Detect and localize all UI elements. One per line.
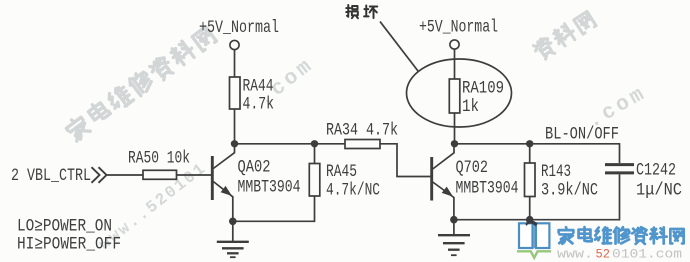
transistor Q702 emitter — [433, 182, 454, 220]
wire: RA34 right to Q702 base — [380, 144, 430, 177]
wire: node A to RA34 (horizontal bus y=144) — [235, 143, 346, 145]
capacitor C1242 bottom plate — [605, 171, 634, 174]
wire: RA45 top from bus — [314, 144, 316, 164]
node: Q702 emitter junction dot — [450, 216, 458, 224]
transistor Q702 base bar — [430, 157, 433, 201]
wire: +5V terminal to RA44 top — [234, 50, 236, 77]
svg-text:HI≥POWER_OFF: HI≥POWER_OFF — [17, 236, 121, 255]
wire: Q702 emitter node to ground — [453, 220, 455, 235]
svg-text:QA02: QA02 — [238, 159, 271, 178]
wire: R143 bottom to bottom bus — [529, 197, 531, 220]
power terminal +5V_Normal (right) — [450, 40, 459, 49]
watermark CJK right-top — [532, 12, 596, 62]
wire: RA50 to QA02 base — [177, 174, 212, 176]
svg-text:C1242: C1242 — [636, 162, 676, 181]
logo book icon spine line — [533, 224, 535, 248]
resistor R143 body — [525, 163, 536, 197]
wire: BL-ON/OFF bus to capacitor corner — [455, 144, 620, 163]
annotation text "damaged" (sun-huai) — [346, 5, 377, 18]
ground symbol (right) — [438, 235, 470, 255]
svg-text:+5V_Normal: +5V_Normal — [199, 19, 279, 38]
svg-text:RA50 10k: RA50 10k — [128, 150, 190, 169]
svg-text:1k: 1k — [462, 98, 479, 117]
logo book icon dark bookmark — [526, 221, 538, 227]
svg-text:4.7k: 4.7k — [243, 96, 275, 115]
wire: RA45 bottom down and left to QA02 emitter — [233, 196, 315, 221]
transistor QA02 base bar — [211, 156, 214, 200]
logo CJK text jia-dian-wei-xiu-zi-liao-wang — [559, 227, 684, 244]
svg-text:0101.com: 0101.com — [612, 247, 682, 261]
svg-text:3.9k/NC: 3.9k/NC — [541, 182, 598, 201]
resistor RA45 body — [309, 164, 320, 197]
transistor QA02 collector — [213, 141, 234, 169]
svg-text:BL-ON/OFF: BL-ON/OFF — [545, 126, 619, 145]
resistor RA109 body — [449, 79, 460, 113]
node: QA02 emitter junction dot — [229, 218, 237, 226]
node: R143 bottom junction dot — [526, 216, 534, 224]
leader line from damage label to ellipse — [380, 22, 418, 72]
node: R143 top junction dot — [526, 140, 533, 147]
resistor RA50 body — [143, 170, 177, 179]
ground symbol (left) — [217, 242, 249, 257]
highlight ellipse around RA109 — [407, 59, 512, 127]
transistor QA02 emitter arrow — [221, 186, 232, 196]
svg-text:1μ/NC: 1μ/NC — [636, 182, 682, 201]
watermark CJK diagonal upper-left — [64, 27, 216, 142]
transistor Q702 emitter arrow — [442, 187, 453, 197]
svg-text:+5V_Normal: +5V_Normal — [419, 19, 498, 38]
wire: RA109 bottom to node B — [454, 113, 456, 144]
svg-text:2 VBL_CTRL: 2 VBL_CTRL — [11, 167, 91, 186]
node B junction dot (Q702 collector / RA109 / BL-ON/OFF) — [451, 140, 458, 147]
logo book icon right page — [536, 223, 550, 248]
svg-text:RA34 4.7k: RA34 4.7k — [326, 122, 398, 141]
svg-text:MMBT3904: MMBT3904 — [456, 180, 519, 199]
svg-text:RA44: RA44 — [243, 78, 274, 97]
capacitor C1242 top plate — [605, 163, 634, 166]
svg-text:MMBT3904: MMBT3904 — [238, 179, 301, 198]
svg-text:RA109: RA109 — [462, 80, 504, 99]
svg-text:52: 52 — [596, 247, 611, 261]
wire: input chevron to RA50 — [107, 174, 144, 176]
node A junction dot (QA02 collector) — [231, 140, 238, 147]
svg-text:R143: R143 — [541, 163, 571, 182]
resistor RA34 body — [345, 140, 380, 149]
svg-text:LO≥POWER_ON: LO≥POWER_ON — [17, 218, 112, 237]
wire: RA44 bottom to node A — [234, 109, 236, 144]
logo book icon left page — [519, 223, 533, 248]
wire: QA02 emitter node to ground — [232, 221, 234, 241]
svg-text:RA45: RA45 — [326, 163, 357, 182]
wire: capacitor bottom to bottom bus — [454, 174, 620, 219]
svg-text:4.7k/NC: 4.7k/NC — [326, 182, 380, 201]
transistor QA02 emitter — [213, 182, 233, 222]
node: RA45 top junction dot — [311, 140, 318, 147]
resistor RA44 body — [230, 77, 241, 109]
svg-text:Q702: Q702 — [456, 159, 489, 178]
wire: +5V terminal to RA109 top — [454, 49, 456, 79]
svg-text:www.: www. — [557, 247, 593, 261]
transistor Q702 collector — [433, 141, 454, 169]
wire: R143 top from bus — [529, 144, 531, 163]
logo book icon green base — [517, 251, 551, 257]
power terminal +5V_Normal (left) — [230, 40, 239, 49]
input chevron 2 VBL_CTRL — [92, 167, 107, 183]
